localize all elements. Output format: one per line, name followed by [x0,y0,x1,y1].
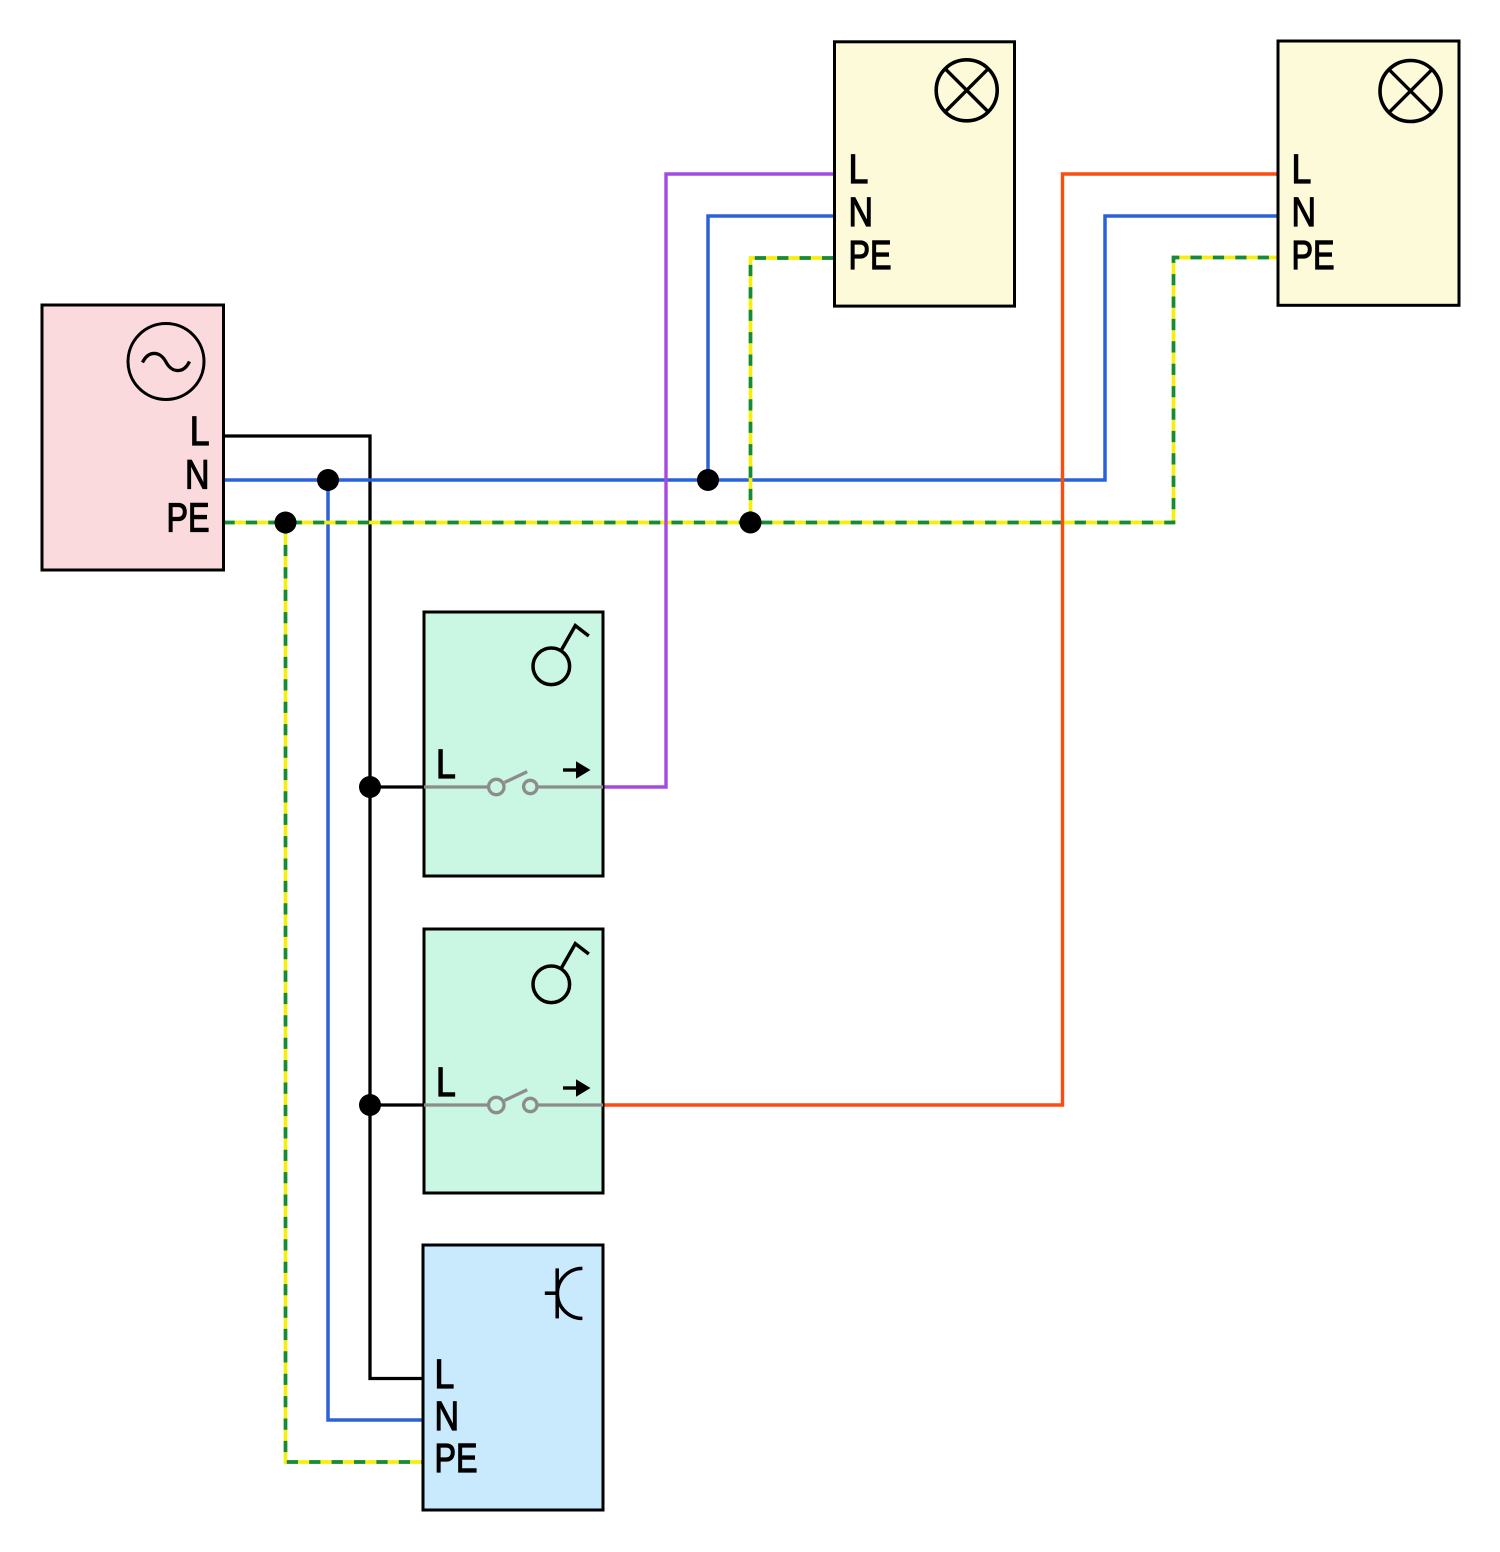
switch S1 contact circle right [524,780,537,793]
switch S1 contact circle left [489,779,504,794]
wire L branch to switch S1 [370,785,424,788]
switch S2 box [424,929,603,1193]
svg-text:PE: PE [435,1435,478,1481]
junction L bus to switch S1 [359,776,381,798]
switch S1 blade [505,772,528,783]
switch S2 contact circle left [489,1097,504,1112]
wire switched live orange: switch S2 to lamp X2 [603,174,1278,1105]
svg-text:N: N [1292,189,1317,235]
wire L black: source to socket via vertical bus [224,436,424,1379]
wire switched live purple: switch S1 to lamp X1 [603,174,835,787]
junction N bus to socket [317,469,339,491]
lamp X2 box [1278,41,1459,305]
switch S1 output arrow [563,761,591,778]
svg-text:PE: PE [167,495,210,541]
wire L branch to switch S2 [370,1103,424,1106]
switch S1 box [424,612,603,876]
wire N branch to lamp X1 [708,216,835,480]
socket X3 icon [545,1268,583,1318]
svg-text:L: L [435,1351,455,1397]
switch S2 blade [505,1090,528,1101]
wire N branch to socket [328,480,423,1420]
switch S2 contact wire left [424,1103,488,1106]
svg-text:L: L [1292,146,1312,192]
switch S1 contact wire left [424,785,488,788]
source AC symbol [128,324,204,400]
junction PE bus to socket [275,512,297,534]
svg-text:PE: PE [849,232,892,278]
junction N bus to lamp X1 [697,469,719,491]
switch S2 icon [533,944,589,1003]
svg-text:N: N [435,1393,460,1439]
socket X3 box [423,1245,603,1510]
switch S1 icon [533,626,589,685]
switch S2 output arrow [563,1079,591,1096]
svg-text:L: L [190,408,210,454]
switch S2 contact wire right [539,1103,604,1106]
wire PE branch to socket [286,523,424,1463]
svg-text:L: L [436,1059,456,1105]
switch S2 contact circle right [524,1098,537,1111]
junction PE bus to lamp X1 [740,512,762,534]
switch S1 contact wire right [539,785,604,788]
source box G1 [42,305,224,570]
wire N blue: source bus to lamp X2 [224,216,1279,480]
svg-text:N: N [849,189,874,235]
lamp X1 box [835,42,1015,306]
svg-text:PE: PE [1292,232,1335,278]
wire PE yellow-green: source bus to lamp X2 [224,258,1279,523]
svg-text:L: L [849,146,869,192]
svg-text:L: L [436,741,456,787]
wire PE branch to lamp X1 [751,258,835,523]
junction L bus to switch S2 [359,1094,381,1116]
lamp X2 symbol [1380,61,1441,122]
lamp X1 symbol [936,60,997,121]
svg-text:N: N [185,452,210,498]
